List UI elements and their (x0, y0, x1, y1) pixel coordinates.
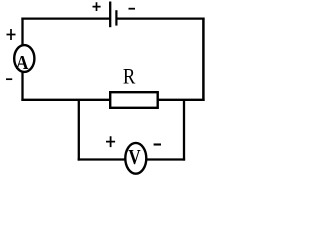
wire: top-left segment to battery (21, 17, 110, 19)
wire: voltmeter branch bottom left segment (78, 158, 126, 160)
ammeter minus label (6, 78, 12, 80)
wire: voltmeter branch left vertical (78, 100, 80, 161)
svg-text:A: A (16, 52, 29, 74)
wire: bottom left segment (21, 99, 110, 101)
svg-text:R: R (123, 65, 136, 89)
wire: left side below ammeter (21, 72, 23, 101)
wire: top-right segment from battery (116, 17, 204, 19)
voltmeter minus label (154, 143, 161, 145)
battery minus label (129, 8, 136, 10)
voltmeter V1 circle (125, 143, 146, 174)
battery plus label (93, 2, 101, 11)
ammeter A1 circle (14, 45, 34, 72)
wire: left side above ammeter (21, 18, 23, 46)
wire: voltmeter branch right vertical (183, 100, 185, 161)
wire: right side (202, 18, 205, 102)
battery B1 short plate (-) (115, 10, 117, 25)
battery B1 long plate (+) (109, 2, 111, 28)
ammeter plus label (7, 29, 16, 40)
svg-text:V: V (128, 146, 141, 169)
resistor R box (110, 92, 158, 108)
voltmeter plus label (106, 136, 115, 147)
wire: bottom right segment (158, 99, 205, 101)
wire: voltmeter branch bottom right segment (146, 158, 185, 160)
